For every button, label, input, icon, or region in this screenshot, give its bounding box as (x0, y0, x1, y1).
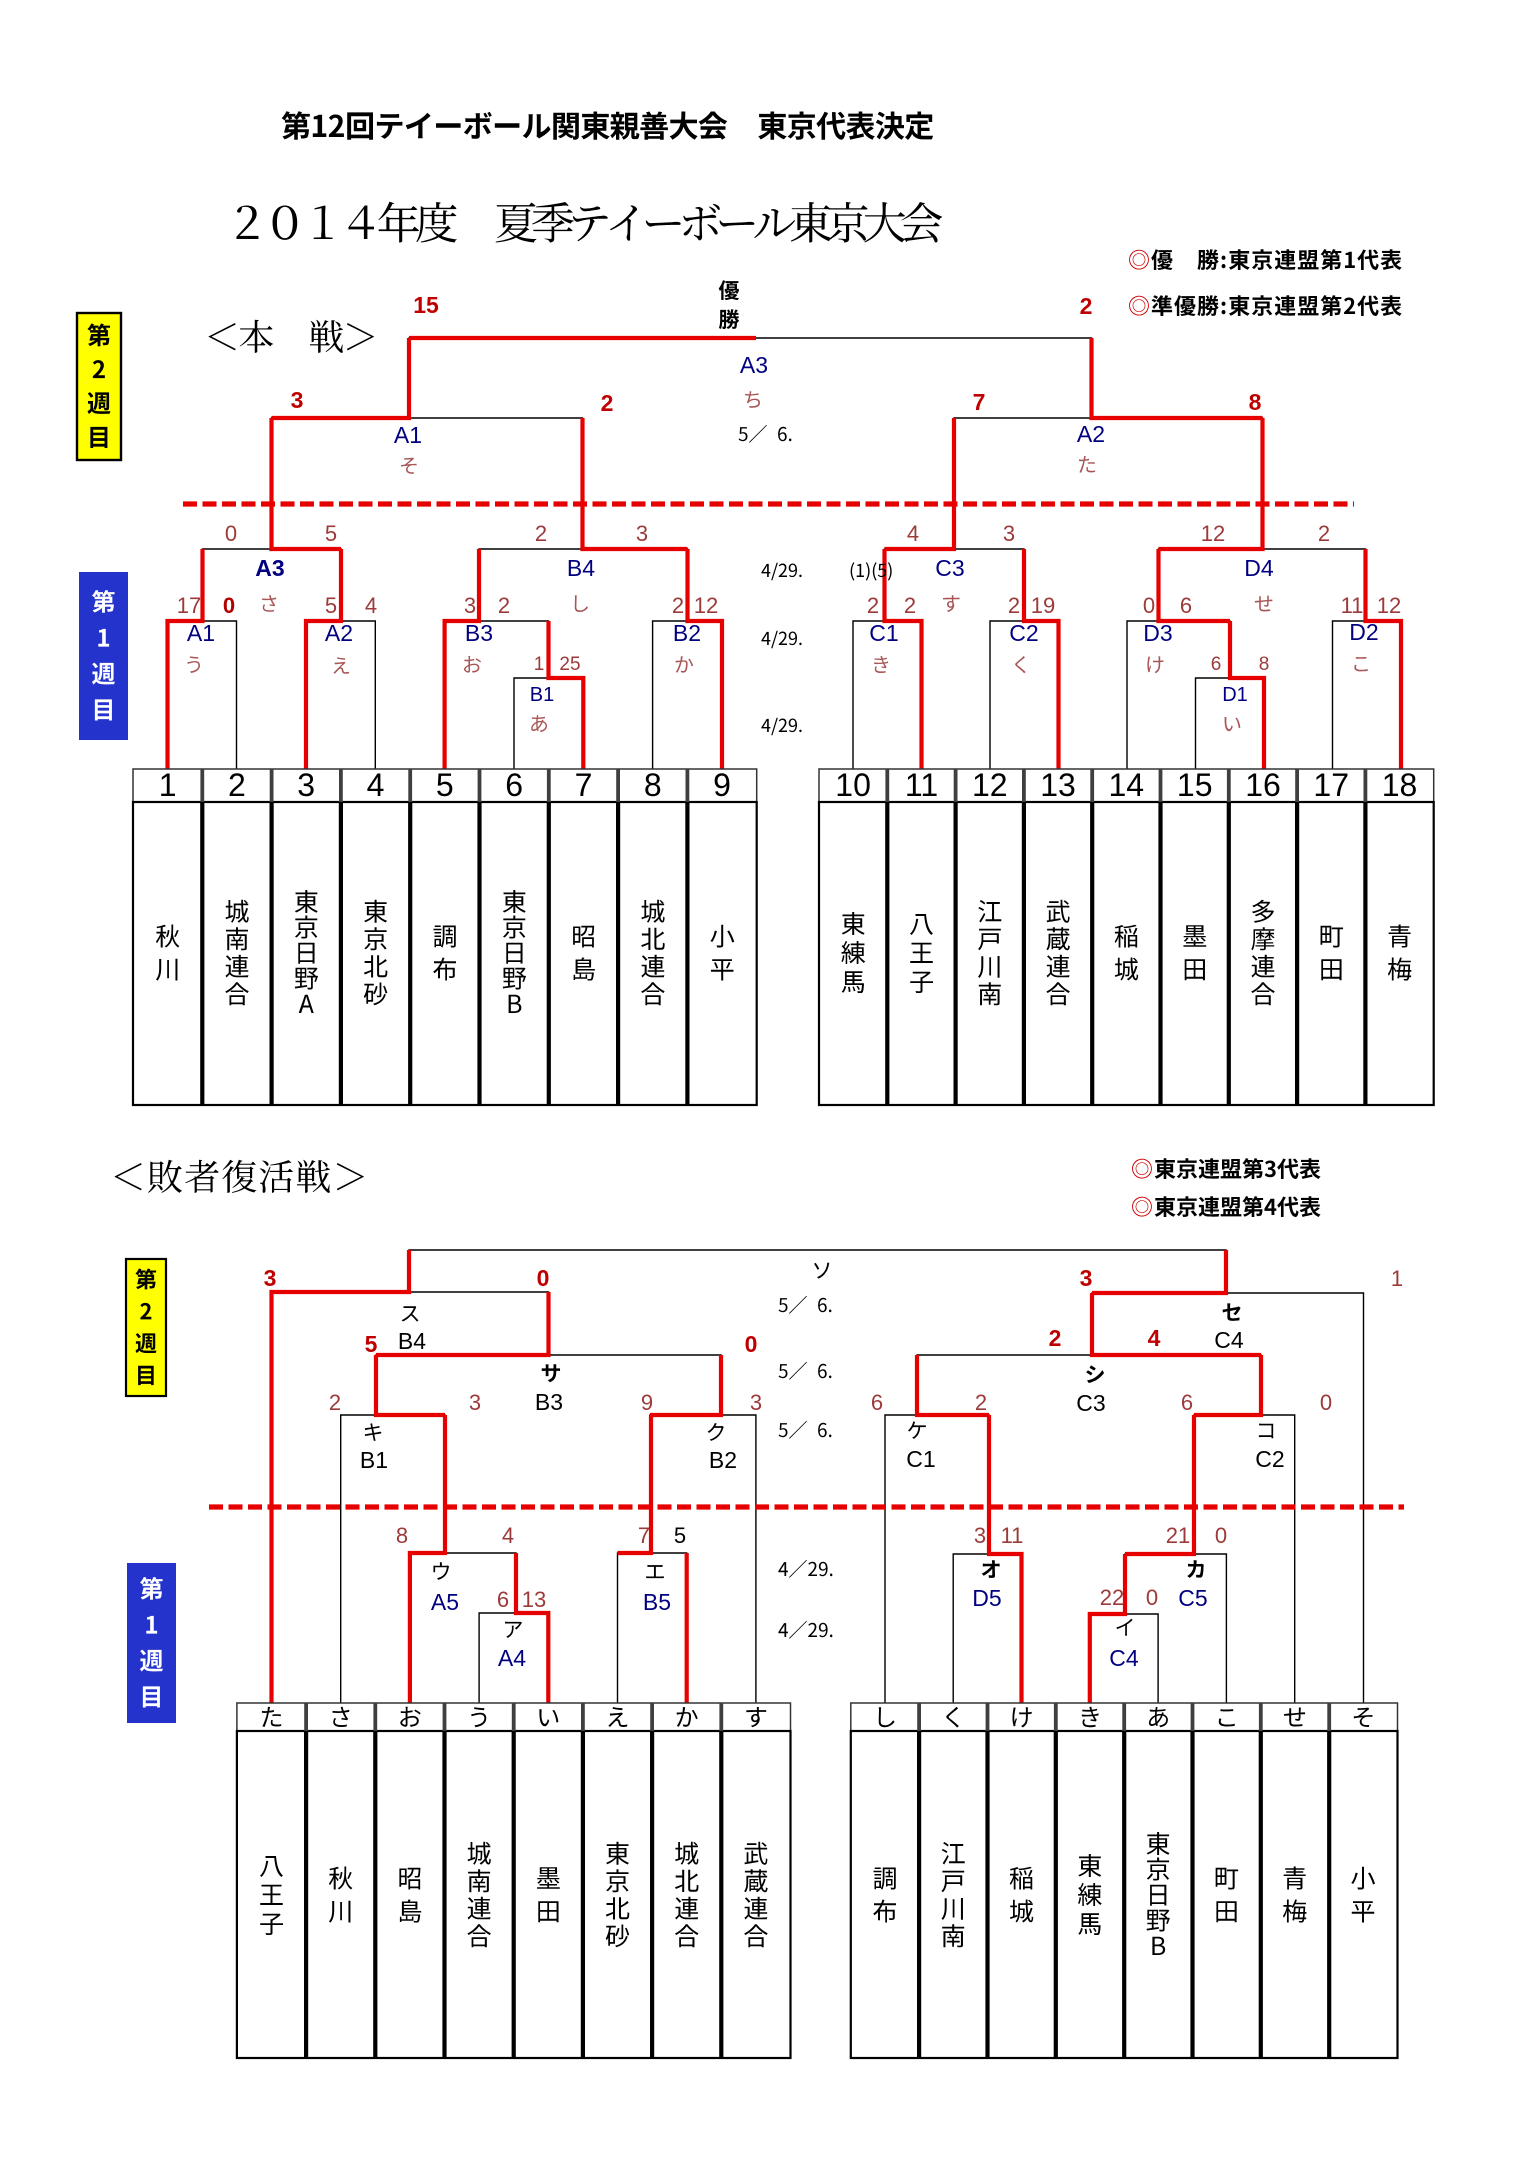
bracket B2 (653, 621, 722, 769)
svg-text:0: 0 (223, 593, 235, 618)
svg-text:D3: D3 (1143, 620, 1172, 646)
bracket sa (376, 1355, 721, 1415)
svg-text:A4: A4 (498, 1645, 526, 1671)
svg-text:C4: C4 (1109, 1645, 1139, 1671)
bracket ki (341, 1415, 445, 1703)
red path i winner higashinerima (1090, 1554, 1125, 1703)
svg-text:4: 4 (502, 1523, 514, 1548)
label u/A5 (433, 1562, 449, 1580)
svg-text:7: 7 (973, 389, 986, 415)
svg-text:5: 5 (365, 1331, 378, 1357)
bracket D4 (1159, 549, 1366, 621)
label su/B4 (402, 1306, 419, 1322)
svg-text:3: 3 (297, 767, 315, 803)
bracket B4 (479, 549, 688, 621)
svg-text:4: 4 (1148, 1325, 1161, 1351)
red path D3 winner (1159, 549, 1231, 621)
bracket su (272, 1292, 549, 1703)
svg-text:3: 3 (1080, 1265, 1093, 1291)
label e/B5 (646, 1565, 664, 1578)
svg-text:18: 18 (1382, 767, 1418, 803)
red path ki winner (376, 1355, 445, 1415)
red path D4 winner (1159, 418, 1263, 549)
svg-text:3: 3 (1003, 521, 1015, 546)
svg-text:2: 2 (1318, 521, 1330, 546)
bracket se (1092, 1293, 1364, 1703)
svg-text:0: 0 (745, 1331, 758, 1357)
svg-text:6: 6 (1211, 654, 1222, 675)
red path u winner akishima (410, 1415, 445, 1703)
svg-text:A1: A1 (187, 620, 215, 646)
svg-text:B2: B2 (673, 620, 701, 646)
red path team3 hinoA (306, 549, 341, 769)
svg-text:8: 8 (1259, 654, 1270, 675)
svg-text:2: 2 (867, 593, 879, 618)
svg-text:17: 17 (177, 593, 201, 618)
svg-text:12: 12 (694, 593, 718, 618)
bracket D1 (1196, 678, 1265, 769)
bracket ku (650, 1415, 756, 1703)
red path B4 winner (583, 418, 688, 549)
svg-text:3: 3 (264, 1265, 277, 1291)
red path se winner (1092, 1250, 1226, 1293)
svg-text:1: 1 (159, 767, 177, 803)
svg-text:2: 2 (1080, 293, 1093, 319)
svg-text:6: 6 (505, 767, 523, 803)
svg-text:2: 2 (228, 767, 246, 803)
svg-text:21: 21 (1166, 1523, 1190, 1548)
svg-text:A5: A5 (431, 1589, 459, 1615)
svg-text:12: 12 (1201, 521, 1225, 546)
svg-text:8: 8 (644, 767, 662, 803)
lower dashed divider (209, 1504, 1404, 1509)
label ki/B1 (365, 1423, 382, 1440)
svg-text:1: 1 (534, 654, 545, 675)
bracket B1 (514, 678, 583, 769)
lower team names (260, 1856, 283, 1877)
label sa/B3 (542, 1364, 560, 1382)
label o/D5 (982, 1560, 1000, 1578)
svg-text:4: 4 (367, 767, 385, 803)
red path team16 tama (1230, 621, 1264, 769)
lower week1 box (127, 1563, 176, 1723)
red path ko winner (1194, 1355, 1261, 1415)
svg-text:B1: B1 (360, 1447, 388, 1473)
svg-text:6: 6 (1180, 593, 1192, 618)
svg-text:0: 0 (1146, 1585, 1158, 1610)
legend rep3 (1132, 1159, 1152, 1179)
bracket a (479, 1613, 548, 1703)
svg-text:2: 2 (975, 1390, 987, 1415)
svg-text:15: 15 (1177, 767, 1213, 803)
svg-text:5: 5 (436, 767, 454, 803)
red path team1 akigawa (168, 549, 203, 769)
svg-text:0: 0 (537, 1265, 550, 1291)
week1 label box (79, 572, 128, 740)
bracket A1 (168, 621, 237, 769)
upper dashed divider (183, 501, 1354, 506)
bracket D3 (1127, 621, 1230, 769)
svg-text:3: 3 (750, 1390, 762, 1415)
lower boxes group left (237, 1703, 791, 1731)
team boxes group 1-9 (133, 769, 757, 802)
red path team13 musashi (1024, 549, 1059, 769)
svg-text:4: 4 (907, 521, 919, 546)
red path ka winner (1125, 1415, 1194, 1554)
title line 1 (282, 111, 310, 140)
svg-text:3: 3 (464, 593, 476, 618)
svg-text:5: 5 (674, 1523, 686, 1548)
svg-text:2: 2 (535, 521, 547, 546)
lower boxes group right (851, 1703, 1398, 1731)
svg-text:11: 11 (1341, 593, 1364, 618)
bracket D2 (1333, 621, 1402, 769)
label so (814, 1263, 829, 1279)
svg-text:13: 13 (1040, 767, 1076, 803)
svg-text:B3: B3 (465, 620, 493, 646)
red path team18 oume (1366, 549, 1402, 769)
svg-text:5: 5 (325, 521, 337, 546)
svg-text:A2: A2 (1077, 421, 1105, 447)
loser-bracket heading (114, 1163, 141, 1190)
red path team5 chofu (445, 549, 479, 769)
bracket ko (1194, 1415, 1295, 1703)
bracket shi (917, 1355, 1261, 1415)
lower dates (779, 1298, 788, 1312)
svg-text:A3: A3 (255, 555, 284, 581)
label i/C4 (1116, 1619, 1132, 1636)
svg-text:C3: C3 (935, 555, 964, 581)
main-draw heading (208, 323, 235, 350)
svg-text:C2: C2 (1009, 620, 1038, 646)
bracket semifinal right (954, 418, 1263, 549)
red path semifinal-right winner (1092, 338, 1263, 418)
upper team names (156, 925, 180, 948)
red path champion (409, 336, 756, 340)
svg-text:A1: A1 (394, 422, 422, 448)
label ka/C5 (1187, 1560, 1204, 1578)
bracket C2 (990, 621, 1059, 769)
bracket ke (885, 1415, 989, 1703)
svg-text:9: 9 (713, 767, 731, 803)
legend runner-up (1129, 296, 1149, 316)
bracket ka (1125, 1554, 1226, 1703)
svg-text:D1: D1 (1222, 684, 1248, 706)
svg-text:D5: D5 (972, 1585, 1001, 1611)
red path hachioji revival (272, 1250, 410, 1703)
svg-text:0: 0 (1320, 1390, 1332, 1415)
svg-text:25: 25 (559, 654, 580, 675)
svg-text:1: 1 (1391, 1266, 1403, 1291)
svg-text:C5: C5 (1178, 1585, 1207, 1611)
title line 2 (236, 206, 258, 239)
label ke/C1 (908, 1421, 926, 1438)
red path team11 hachioji (885, 549, 922, 769)
svg-text:11: 11 (1001, 1523, 1024, 1548)
red path ku winner (650, 1355, 721, 1415)
svg-text:3: 3 (974, 1523, 986, 1548)
svg-text:2: 2 (498, 593, 510, 618)
svg-text:2: 2 (1049, 1325, 1062, 1351)
svg-text:C4: C4 (1214, 1327, 1244, 1353)
svg-text:7: 7 (638, 1523, 650, 1548)
svg-text:8: 8 (1249, 389, 1262, 415)
svg-text:2: 2 (672, 593, 684, 618)
champion label (719, 280, 739, 300)
svg-text:B1: B1 (530, 684, 554, 706)
bracket e (618, 1553, 687, 1703)
red path team9 kodaira (688, 549, 723, 769)
red path ke winner (917, 1355, 989, 1415)
svg-text:2: 2 (601, 390, 614, 416)
svg-text:15: 15 (413, 292, 439, 318)
red path sa winner (376, 1292, 549, 1355)
svg-text:16: 16 (1245, 767, 1281, 803)
lower week2 box (126, 1259, 166, 1396)
svg-text:3: 3 (469, 1390, 481, 1415)
svg-text:13: 13 (522, 1587, 546, 1612)
team boxes group 10-18 (819, 769, 1434, 802)
week2 label box (77, 313, 121, 460)
red path e winner (618, 1415, 652, 1553)
svg-text:0: 0 (225, 521, 237, 546)
legend winner (1129, 250, 1149, 270)
svg-text:6: 6 (497, 1587, 509, 1612)
bracket so (final) (409, 1250, 1226, 1293)
svg-text:B5: B5 (643, 1589, 671, 1615)
red path C3 winner (885, 418, 955, 549)
label ku/B2 (708, 1423, 724, 1441)
svg-text:4: 4 (365, 593, 377, 618)
legend rep4 (1132, 1197, 1152, 1217)
svg-text:12: 12 (972, 767, 1008, 803)
bracket o (953, 1554, 1021, 1703)
label shi/C3 (1086, 1365, 1104, 1383)
svg-text:3: 3 (291, 387, 304, 413)
svg-text:0: 0 (1215, 1523, 1227, 1548)
red path team7 akishima (549, 621, 584, 769)
bracket final (409, 338, 1092, 418)
svg-text:2: 2 (329, 1390, 341, 1415)
svg-text:6: 6 (871, 1390, 883, 1415)
bracket C1 (853, 621, 922, 769)
svg-text:22: 22 (1100, 1585, 1124, 1610)
svg-text:A2: A2 (325, 620, 353, 646)
red path shi winner (1092, 1293, 1261, 1355)
svg-text:11: 11 (905, 767, 938, 803)
bracket A2 (306, 621, 375, 769)
svg-text:14: 14 (1109, 767, 1145, 803)
svg-text:3: 3 (636, 521, 648, 546)
svg-text:12: 12 (1377, 593, 1401, 618)
svg-text:A3: A3 (740, 352, 768, 378)
bracket semifinal left (272, 418, 583, 549)
svg-text:9: 9 (641, 1390, 653, 1415)
red path a winner sumida (516, 1553, 548, 1703)
svg-text:19: 19 (1031, 593, 1055, 618)
bracket A3 (203, 549, 342, 621)
svg-text:B3: B3 (535, 1389, 563, 1415)
bracket i (1090, 1614, 1158, 1703)
svg-text:10: 10 (835, 767, 871, 803)
bracket B3 (445, 621, 549, 769)
lower column kana headers (262, 1707, 281, 1727)
svg-text:B4: B4 (567, 555, 595, 581)
dates right of bracket (761, 564, 770, 577)
red path A3 winner (272, 418, 342, 549)
svg-text:B4: B4 (398, 1328, 426, 1354)
svg-text:C1: C1 (869, 620, 898, 646)
svg-text:B2: B2 (709, 1447, 737, 1473)
svg-text:C2: C2 (1255, 1446, 1284, 1472)
label se/C4 (1223, 1303, 1241, 1320)
svg-text:8: 8 (396, 1523, 408, 1548)
svg-text:5: 5 (325, 593, 337, 618)
red path e right leg (685, 1553, 689, 1703)
svg-text:D2: D2 (1349, 619, 1378, 645)
svg-text:17: 17 (1313, 767, 1349, 803)
svg-text:7: 7 (575, 767, 593, 803)
svg-text:6: 6 (1181, 1390, 1193, 1415)
svg-text:C3: C3 (1076, 1390, 1105, 1416)
label a/A4 (505, 1622, 522, 1638)
label ko/C2 (1259, 1424, 1273, 1439)
svg-text:D4: D4 (1244, 555, 1274, 581)
red path o winner inagi (989, 1415, 1022, 1703)
bracket C3 (885, 549, 1025, 621)
red path semifinal-left winner (272, 338, 410, 418)
svg-text:2: 2 (1008, 593, 1020, 618)
bracket u (410, 1553, 516, 1703)
svg-text:0: 0 (1143, 593, 1155, 618)
svg-text:C1: C1 (906, 1446, 935, 1472)
svg-text:2: 2 (904, 593, 916, 618)
